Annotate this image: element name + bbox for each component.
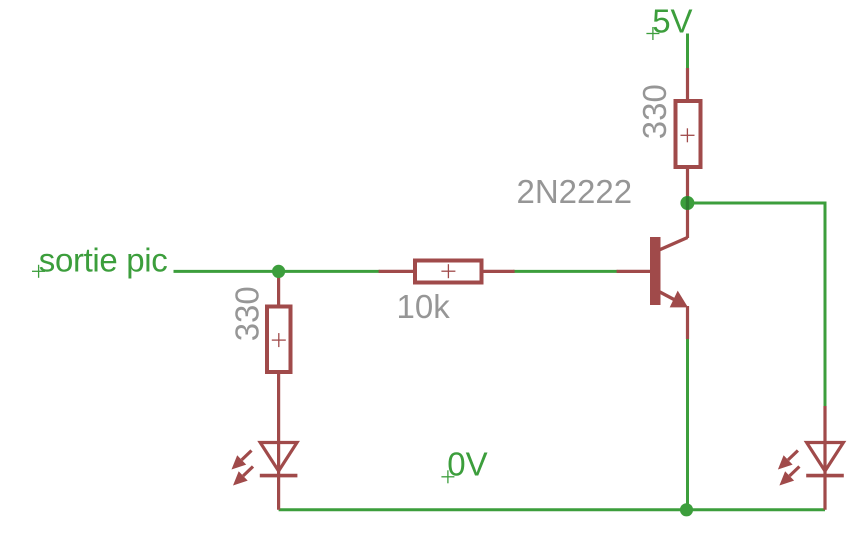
wire: emitter down to bottom rail xyxy=(686,338,689,510)
wire segment: R1 bottom to Q1 collector (dark red) xyxy=(686,168,689,238)
svg-text:330: 330 xyxy=(229,286,266,341)
LED2 (right) xyxy=(778,443,844,486)
wire segment: R3 left pin (dark red) xyxy=(379,270,414,273)
svg-text:2N2222: 2N2222 xyxy=(517,173,633,210)
wire segment: Q1 base pin (dark red) xyxy=(617,270,651,273)
wire: 5V supply down to R1 xyxy=(686,34,689,70)
resistor R1 330 body xyxy=(676,101,701,167)
svg-text:330: 330 xyxy=(636,84,673,139)
transistor Q1 2N2222 xyxy=(650,237,688,339)
svg-text:0V: 0V xyxy=(447,445,487,482)
wire segment: R3 right pin (dark red) xyxy=(482,270,515,273)
wire: sortie pic to R3 left pin xyxy=(174,270,381,273)
svg-text:10k: 10k xyxy=(397,288,451,325)
resistor R3 10k body xyxy=(415,261,482,283)
pin cross of supply 0V xyxy=(441,470,454,483)
svg-text:sortie pic: sortie pic xyxy=(39,242,168,279)
junction dot: collector node xyxy=(680,196,694,210)
resistor R2 330 body xyxy=(267,307,291,373)
wire segment: junction down to R2 top (dark red) xyxy=(277,271,280,305)
wire segment: 5V pin into R1 top (dark red) xyxy=(686,68,689,100)
wire: R3 right pin to Q1 base xyxy=(513,270,618,273)
wire: right branch down to LED2 xyxy=(824,202,827,408)
pin cross of net label SORTIE_PIC xyxy=(32,265,45,278)
wire: collector node to right branch xyxy=(688,202,826,205)
LED1 (left) xyxy=(232,443,298,486)
wire segment: R2 bottom through LED1 to bottom rail (dark red) xyxy=(277,373,280,510)
pin cross of supply +5V xyxy=(646,27,659,40)
wire: bottom 0V rail xyxy=(279,508,825,511)
wire segment: LED2 anode pin and cathode to rail (dark red) xyxy=(823,406,826,510)
junction dot: base node xyxy=(272,265,285,278)
junction dot: bottom rail node xyxy=(680,503,693,516)
